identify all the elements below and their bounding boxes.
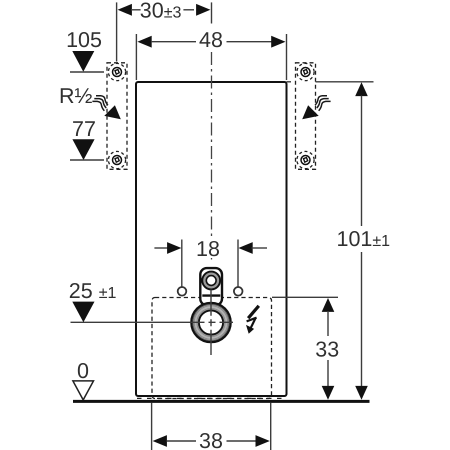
- dimension 101±1: top arrowhead: [355, 82, 368, 96]
- level marker 77: reference line: [70, 159, 104, 161]
- dimension 30±3: left arrowhead: [118, 4, 132, 16]
- module outline: [136, 82, 287, 396]
- svg-text:30±3: 30±3: [140, 0, 182, 23]
- dimension 30±3: left extension line: [116, 2, 118, 61]
- level marker 77: filled triangle: [72, 139, 94, 160]
- dimension 48: left arrowhead: [137, 36, 151, 48]
- svg-text:0: 0: [77, 359, 89, 383]
- water supply valve: T-bar: [202, 294, 220, 296]
- left water-supply squiggle arrow: arrowhead: [104, 105, 121, 119]
- water supply valve: ring outer circle: [202, 272, 220, 290]
- dimension 38: right extension line below floor: [270, 403, 272, 450]
- svg-text:18: 18: [196, 237, 220, 261]
- right top screw: dashed circle: [297, 63, 314, 80]
- level marker 0: open triangle: [73, 381, 94, 400]
- dimension 18: right lead line: [252, 247, 268, 249]
- svg-text:105: 105: [66, 28, 102, 52]
- left bottom screw: head symbol: [113, 156, 122, 165]
- water supply zone dashed rectangle: [152, 298, 272, 399]
- dimension 18: right extension line: [237, 240, 239, 288]
- dimension 48: right extension line: [286, 34, 288, 80]
- right top screw: head symbol: [301, 68, 310, 77]
- dimension 30±3: left leader: [131, 9, 141, 11]
- left bottom screw: dashed circle: [108, 151, 125, 168]
- pipe crosshair horizontal: [71, 321, 234, 323]
- dimension 38: dim line right part: [227, 440, 257, 442]
- dimension 38: right arrowhead: [256, 435, 270, 447]
- dimension 30±3: right arrowhead: [196, 4, 210, 16]
- right bottom screw: head symbol: [301, 156, 310, 165]
- level marker 105: filled triangle: [72, 51, 94, 72]
- dimension 101±1: dim line lower part: [361, 252, 363, 386]
- dimension 30±3: right extension tick: [211, 2, 213, 23]
- left top screw: head symbol: [113, 68, 122, 77]
- right connection zone dashed rectangle: [296, 63, 316, 170]
- water connection pipe: hatched annulus: [196, 307, 227, 338]
- right water-supply squiggle arrow: waves: [302, 96, 330, 120]
- dimension 38: left extension line below floor: [151, 403, 153, 450]
- level marker 105: reference line: [70, 71, 104, 73]
- dimension 101±1: bottom arrowhead: [355, 386, 368, 400]
- dimension 48: right arrowhead: [271, 36, 285, 48]
- left fixing point small circle: [178, 287, 187, 296]
- dimension 38: dim line left part: [167, 440, 197, 442]
- pipe crosshair vertical: [210, 290, 212, 356]
- dimension 33: bottom arrowhead: [322, 386, 335, 400]
- svg-text:101±1: 101±1: [337, 227, 391, 251]
- dimension 18: left lead line: [154, 247, 169, 249]
- water connection pipe: annulus stripe inner: [197, 308, 225, 336]
- water connection pipe: annulus outer edge: [193, 304, 229, 340]
- svg-text:38: 38: [199, 429, 223, 450]
- dimension 48: dim line left part: [151, 41, 196, 43]
- dimension 101±1: dim line upper part: [361, 96, 363, 227]
- water supply valve: ring gray annulus: [204, 274, 218, 288]
- dimension 33: top arrowhead: [322, 298, 335, 312]
- dimension 101±1: top extension line (module corner stub): [287, 81, 292, 83]
- water supply valve: bracket body: [200, 268, 222, 305]
- dimension 18: right arrowhead: [238, 242, 252, 254]
- dimension 18: left arrowhead: [167, 242, 181, 254]
- left top screw: dashed circle: [108, 63, 125, 80]
- dimension 30±3: right leader: [183, 9, 194, 11]
- floor line: [73, 400, 370, 403]
- svg-text:25 ±1: 25 ±1: [69, 279, 117, 303]
- dimension 101±1: top extension line (right of dashed rect): [316, 81, 374, 83]
- right water-supply squiggle arrow: arrowhead: [302, 105, 319, 119]
- left connection zone dashed rectangle: [107, 63, 127, 170]
- svg-text:33: 33: [315, 337, 339, 361]
- svg-text:77: 77: [72, 117, 96, 141]
- dimension 18: label halo: [194, 239, 222, 258]
- svg-text:R½: R½: [59, 84, 93, 108]
- right bottom screw: dashed circle: [297, 151, 314, 168]
- right fixing point small circle: [234, 287, 243, 296]
- water connection pipe: outer circle: [191, 303, 230, 342]
- level marker 25±1: filled triangle: [72, 302, 94, 323]
- module base dashed line: [137, 397, 286, 399]
- left water-supply squiggle arrow: waves: [92, 96, 108, 111]
- dimension 33: dim line upper part: [327, 311, 329, 336]
- water connection pipe: inner circle: [199, 311, 223, 335]
- dimension 33: dim line lower part: [327, 360, 329, 386]
- electrical connection lightning bolt: [246, 306, 259, 334]
- dimension 48: left extension line: [135, 34, 137, 80]
- water connection pipe: annulus inner edge: [198, 310, 224, 336]
- svg-text:48: 48: [199, 28, 223, 52]
- water connection pipe: annulus stripe outer: [194, 306, 228, 340]
- center line (vertical dash-dot axis): [211, 52, 213, 262]
- dimension 18: left extension line: [181, 240, 183, 288]
- dimension 33: top extension line: [272, 296, 338, 298]
- dimension 48: dim line right part: [227, 41, 273, 43]
- water supply valve: ring inner circle: [206, 276, 216, 286]
- dimension 38: left arrowhead: [153, 435, 167, 447]
